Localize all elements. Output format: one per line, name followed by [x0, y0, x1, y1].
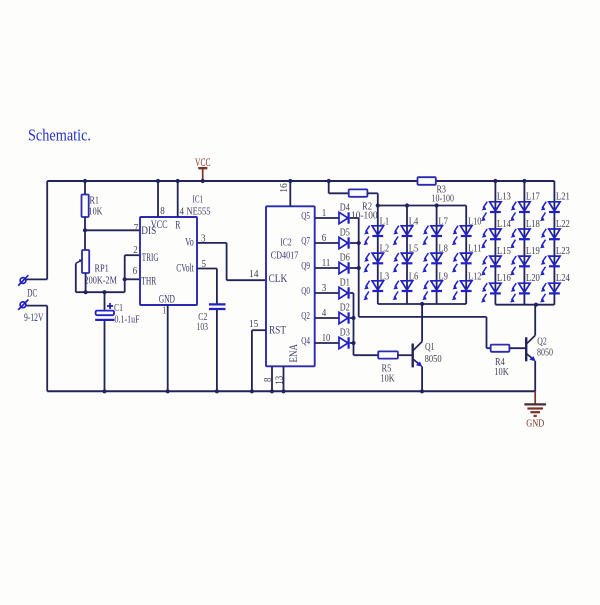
svg-text:7: 7: [134, 222, 139, 234]
wire bus B horizontal to R5: [354, 354, 379, 356]
RP1 wiper arrow: [76, 259, 83, 263]
LED L11: [452, 253, 472, 272]
wire bus A horizontal to R4 branch: [359, 316, 487, 318]
wire group1 column 3: [436, 206, 438, 305]
terminal DC+: [18, 275, 28, 285]
LED L13: [481, 202, 501, 221]
potentiometer RP1: [82, 250, 89, 273]
svg-text:10K: 10K: [89, 206, 103, 218]
junction D3 bus B: [351, 341, 355, 345]
wire left rail vertical to bottom: [46, 306, 48, 392]
svg-text:2: 2: [133, 244, 138, 256]
LED L23: [540, 256, 560, 275]
svg-text:VCC: VCC: [195, 157, 211, 169]
wire to CD4017 CLK pin 14: [227, 279, 266, 281]
svg-text:Vo: Vo: [185, 236, 194, 248]
svg-text:R: R: [175, 220, 180, 232]
svg-text:14: 14: [249, 268, 259, 280]
svg-text:8050: 8050: [425, 353, 442, 365]
diode D2: [339, 312, 349, 323]
svg-text:CLK: CLK: [269, 273, 288, 285]
svg-text:9-12V: 9-12V: [24, 312, 44, 324]
wire NE555 GND pin 1 to rail: [167, 305, 169, 391]
svg-text:Q4: Q4: [301, 336, 310, 347]
wire R2 drop: [328, 181, 330, 193]
svg-text:10K: 10K: [494, 366, 509, 378]
wire THR to NE555 pin 6: [125, 278, 140, 280]
svg-text:TRIG: TRIG: [142, 252, 159, 264]
LED L4: [393, 226, 413, 245]
svg-text:RP1: RP1: [95, 263, 109, 275]
LED L3: [363, 281, 383, 300]
wire Q2 collector jog: [534, 304, 537, 306]
LED L19: [510, 256, 530, 275]
svg-text:GND: GND: [526, 417, 544, 429]
junction group1 top c3: [435, 203, 439, 207]
svg-text:10-100: 10-100: [351, 210, 378, 222]
wire wiper bottom horizontal: [76, 291, 125, 293]
junction group2 top c1: [493, 179, 497, 183]
wire CD4017 Q7 to D5: [315, 242, 339, 244]
LED L20: [510, 283, 530, 302]
wire Vo vertical down: [226, 243, 228, 280]
wire LED group2 bottom rail: [495, 304, 554, 306]
svg-text:D5: D5: [340, 227, 350, 239]
wire TRIG to NE555 pin 2: [125, 254, 140, 256]
wire bus A vertical (D4-D6): [358, 218, 360, 317]
wire Vo pin3 horizontal: [197, 242, 227, 244]
resistor R2: [349, 189, 368, 196]
wire D4 cathode lead: [350, 217, 359, 219]
junction pin4 rail: [176, 179, 180, 183]
wire NE555 pin 8 to rail: [157, 181, 159, 217]
wire to R2 left: [329, 192, 349, 194]
wire Q2 emitter down: [534, 361, 536, 391]
wire R5 to Q1 base: [398, 354, 412, 356]
svg-text:CVolt: CVolt: [176, 262, 194, 274]
diode D6: [339, 262, 349, 273]
wire group1 column 2: [406, 206, 408, 305]
wire Q1 emitter down: [421, 366, 423, 391]
svg-text:8050: 8050: [537, 347, 553, 359]
transistor Q1: [413, 342, 423, 368]
resistor R4: [491, 345, 510, 352]
wire Q1 collector up: [421, 304, 423, 342]
svg-text:6: 6: [133, 265, 138, 277]
wire CD4017 Q4 to D3: [315, 342, 339, 344]
svg-text:IC1: IC1: [193, 194, 204, 206]
svg-text:CD4017: CD4017: [271, 251, 299, 262]
junction pin8 rail: [156, 179, 160, 183]
terminal DC-: [18, 300, 28, 310]
junction Q1 emitter ground rail: [420, 389, 424, 393]
junction group1 top c2: [405, 203, 409, 207]
svg-text:THR: THR: [141, 276, 156, 288]
svg-text:8: 8: [263, 378, 274, 383]
wire R2 right lead: [367, 192, 377, 194]
diode D5: [339, 237, 349, 248]
junction D6 bus A: [357, 266, 361, 270]
svg-text:13: 13: [275, 376, 286, 385]
junction R2 at VCC rail: [327, 179, 331, 183]
svg-text:6: 6: [322, 232, 327, 244]
svg-text:10: 10: [322, 332, 331, 344]
junction VCC on rail: [201, 179, 205, 183]
junction RP1 bottom: [84, 290, 88, 294]
wire to R4 left: [487, 347, 491, 349]
svg-text:Q1: Q1: [425, 341, 435, 353]
svg-text:10K: 10K: [381, 372, 395, 384]
svg-text:Q7: Q7: [301, 236, 310, 247]
wire bus B vertical (D1-D3): [353, 293, 355, 355]
svg-text:4: 4: [322, 307, 327, 319]
LED L17: [510, 202, 530, 221]
svg-text:4: 4: [180, 206, 185, 218]
wire RP1 bottom lead: [85, 273, 87, 292]
LED L10: [452, 226, 472, 245]
wire LED group1 top rail: [378, 205, 466, 207]
LED L16: [481, 283, 501, 302]
junction THR node: [123, 277, 127, 281]
wire R4 to Q2 base: [509, 347, 525, 349]
svg-text:D6: D6: [340, 252, 350, 264]
svg-text:11: 11: [322, 257, 331, 269]
wire D1 cathode lead: [350, 292, 354, 294]
capacitor C1 polarized: [95, 311, 114, 321]
wire CD4017 pin 16 to rail: [289, 181, 291, 206]
wire CD4017 Q9 to D6: [315, 267, 339, 269]
resistor R5: [378, 351, 398, 358]
wire RST down to ground rail: [251, 330, 253, 391]
svg-text:Q2: Q2: [301, 311, 310, 322]
junction C1 at ground rail: [102, 389, 106, 393]
wire CD4017 pin 8 to ground rail: [271, 366, 273, 391]
svg-text:Q2: Q2: [537, 335, 547, 347]
svg-text:ENA: ENA: [288, 344, 300, 363]
wire R1 top lead: [84, 181, 86, 195]
svg-text:Schematic.: Schematic.: [28, 126, 91, 145]
svg-text:1: 1: [322, 207, 327, 219]
junction Q2 collector at group2 bottom rail: [534, 303, 538, 307]
junction R1 at VCC rail: [83, 179, 87, 183]
wire D2 cathode lead: [350, 317, 354, 319]
LED L12: [452, 281, 472, 300]
wire D5 cathode lead: [350, 242, 359, 244]
svg-text:Q5: Q5: [301, 211, 310, 222]
wire group1 column 4: [465, 206, 467, 305]
svg-text:0.1-1uF: 0.1-1uF: [115, 314, 140, 326]
svg-text:DC: DC: [27, 288, 37, 300]
svg-text:D3: D3: [340, 327, 350, 339]
svg-text:D2: D2: [340, 302, 350, 314]
junction pin8 gnd rail: [270, 389, 274, 393]
wire D3 cathode lead: [350, 342, 354, 344]
wire RST pin 15 horizontal: [252, 329, 266, 331]
wire group2 column 1: [494, 181, 496, 305]
diode D1: [339, 287, 349, 298]
LED L2: [363, 253, 383, 272]
svg-text:NE555: NE555: [187, 206, 211, 218]
svg-text:GND: GND: [159, 294, 175, 306]
junction pin1 ground rail: [166, 389, 170, 393]
svg-text:15: 15: [249, 318, 259, 330]
wire LED group1 bottom rail: [378, 303, 466, 305]
wire CD4017 Q0 to D1: [315, 292, 339, 294]
wire NE555 pin 4 to rail: [177, 181, 179, 217]
LED L24: [540, 283, 560, 302]
resistor R3: [418, 177, 436, 185]
junction R1/DIS node: [83, 228, 87, 232]
diode D3: [339, 337, 349, 348]
junction pin13 gnd rail: [281, 389, 285, 393]
wire CD4017 pin 13 to ground rail: [283, 366, 285, 391]
svg-text:8: 8: [160, 205, 165, 217]
wire CVolt vertical to C2: [216, 269, 218, 304]
svg-text:D4: D4: [340, 202, 350, 214]
svg-text:200K-2M: 200K-2M: [85, 275, 118, 287]
wire left rail vertical to DC+: [46, 181, 48, 279]
svg-text:3: 3: [322, 282, 327, 294]
junction C2 at ground rail: [215, 389, 219, 393]
wire DC- terminal lead: [27, 305, 48, 307]
wire Q2 collector up: [534, 305, 536, 336]
LED L21: [540, 202, 560, 221]
LED L7: [422, 226, 442, 245]
wire group2 column 3: [553, 181, 555, 305]
wire R2 down to LED group1 rail: [377, 193, 379, 205]
wire group2 column 2: [523, 181, 525, 305]
junction group1 top c1: [376, 203, 380, 207]
svg-text:16: 16: [278, 183, 290, 193]
wire D6 cathode lead: [350, 267, 359, 269]
svg-text:Q9: Q9: [301, 261, 310, 272]
wire C2 bottom lead: [216, 310, 218, 392]
diode D4: [339, 212, 349, 223]
wire R4 branch vertical: [486, 317, 488, 348]
wire C1 top lead: [104, 292, 106, 310]
capacitor C2: [209, 304, 226, 309]
wire group1 column 1: [377, 206, 379, 305]
svg-text:C1: C1: [114, 302, 123, 314]
ground symbol: [524, 391, 546, 416]
LED L6: [393, 281, 413, 300]
C1 plus sign: [107, 303, 113, 309]
wire bottom ground rail: [47, 390, 535, 392]
LED L22: [540, 229, 560, 248]
LED L15: [481, 256, 501, 275]
wire R1 junction down to RP1: [84, 230, 86, 250]
svg-text:RST: RST: [269, 324, 286, 336]
wire DC+ terminal lead: [27, 278, 48, 280]
LED L1: [363, 226, 383, 245]
junction pin16 rail: [288, 179, 292, 183]
junction RST ground rail: [250, 389, 254, 393]
svg-text:DIS: DIS: [141, 225, 156, 237]
wire top VCC rail left segment: [47, 180, 417, 182]
junction C1 top node: [102, 290, 106, 294]
svg-text:IC2: IC2: [280, 237, 291, 248]
wire R1 bottom lead: [84, 217, 86, 230]
wire top VCC rail right segment: [436, 180, 555, 182]
wire wiper down: [75, 263, 77, 292]
junction D2 bus B: [351, 316, 355, 320]
svg-text:D1: D1: [340, 277, 350, 289]
svg-text:1: 1: [162, 304, 166, 316]
wire CD4017 Q5 to D4: [315, 217, 339, 219]
svg-text:103: 103: [197, 321, 209, 333]
wire THR branch vertical: [124, 255, 126, 292]
wire CVolt pin5 horizontal: [197, 268, 217, 270]
LED L14: [481, 229, 501, 248]
IC2 CD4017 box: [266, 206, 315, 366]
LED L8: [422, 253, 442, 272]
svg-text:10-100: 10-100: [432, 192, 455, 204]
LED L5: [393, 253, 413, 272]
power VCC symbol: [198, 168, 207, 181]
wire C1 bottom lead: [104, 321, 106, 391]
timer IC1 NE555 box: [140, 217, 197, 305]
svg-text:Q0: Q0: [301, 286, 310, 297]
resistor R1: [82, 195, 89, 218]
wire CD4017 Q2 to D2: [315, 317, 339, 319]
wire DIS node to NE555 pin 7: [85, 229, 140, 231]
junction group2 top c2: [522, 179, 526, 183]
junction Q1 collector at group1 bottom rail: [420, 302, 424, 306]
LED L9: [422, 281, 442, 300]
junction D5 bus A: [357, 241, 361, 245]
transistor Q2: [526, 335, 536, 361]
LED L18: [510, 229, 530, 248]
